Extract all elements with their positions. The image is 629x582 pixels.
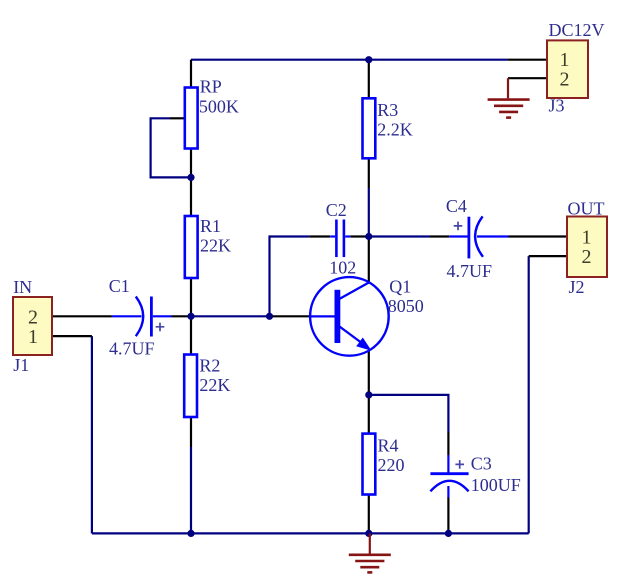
svg-text:R2: R2 bbox=[199, 355, 220, 375]
pin J1 pin1 bbox=[52, 335, 92, 337]
svg-text:22K: 22K bbox=[200, 236, 231, 256]
pin Q1 base bbox=[270, 315, 311, 317]
wire RP wiper loop bbox=[151, 118, 191, 177]
connector J1 bbox=[13, 297, 52, 355]
resistor R1 bbox=[185, 216, 198, 278]
svg-text:C1: C1 bbox=[109, 276, 130, 296]
capacitor C2 bbox=[330, 220, 350, 258]
svg-text:2: 2 bbox=[560, 69, 570, 91]
junction base divider bbox=[187, 313, 194, 320]
pin C2 left bbox=[309, 235, 330, 237]
wire R2 bottom to ground rail bbox=[190, 447, 192, 533]
pin R2 top bbox=[190, 316, 192, 354]
pin C3 top bbox=[447, 432, 449, 455]
wire emitter node to C3 bbox=[369, 395, 449, 432]
pin R3 top bbox=[368, 60, 370, 99]
pin R2 bottom bbox=[190, 417, 192, 447]
svg-text:R4: R4 bbox=[378, 435, 399, 455]
junction rail C3 bbox=[445, 530, 452, 537]
pin C3 bottom bbox=[447, 497, 449, 533]
junction RP wiper R1 bbox=[187, 174, 194, 181]
junction emitter node bbox=[365, 391, 372, 398]
svg-text:J2: J2 bbox=[569, 277, 585, 297]
svg-text:C2: C2 bbox=[326, 200, 347, 220]
junction C2 right collector bbox=[365, 233, 372, 240]
pin C4 right to J2 pin1 bbox=[509, 235, 568, 237]
pin Q1 collector bbox=[368, 237, 370, 283]
wire C2 tap to base bbox=[270, 237, 310, 317]
svg-text:R3: R3 bbox=[377, 100, 398, 120]
capacitor C3 bbox=[430, 455, 468, 498]
resistor R4 bbox=[363, 434, 376, 495]
junction rail R4 ground bbox=[365, 530, 372, 537]
pin R3 bottom bbox=[368, 158, 370, 188]
svg-text:100UF: 100UF bbox=[471, 475, 521, 495]
svg-text:Q1: Q1 bbox=[389, 277, 411, 297]
wire J2 pin2 down bbox=[528, 256, 530, 533]
svg-text:C4: C4 bbox=[446, 196, 467, 216]
pin R1 top bbox=[190, 177, 192, 216]
wire J1 pin1 down bbox=[91, 336, 93, 533]
svg-text:C3: C3 bbox=[471, 454, 492, 474]
svg-text:OUT: OUT bbox=[568, 198, 605, 218]
svg-text:4.7UF: 4.7UF bbox=[447, 261, 493, 281]
svg-text:J1: J1 bbox=[13, 355, 29, 375]
wire base rail bbox=[191, 315, 270, 317]
wire bottom ground rail bbox=[92, 532, 529, 534]
pin RP bottom bbox=[190, 149, 192, 178]
svg-text:4.7UF: 4.7UF bbox=[109, 338, 155, 358]
pin RP wiper bbox=[170, 117, 185, 119]
connector J3 bbox=[547, 40, 588, 98]
svg-text:500K: 500K bbox=[199, 97, 239, 117]
svg-text:J3: J3 bbox=[549, 96, 565, 116]
transistor Q1 bbox=[310, 277, 389, 356]
pin C1 right bbox=[172, 315, 192, 317]
ground at J3 bbox=[488, 78, 530, 117]
pin C4 left bbox=[430, 235, 449, 237]
capacitor C4 bbox=[449, 216, 508, 258]
pin J2 pin2 bbox=[529, 255, 567, 257]
pin Q1 emitter bbox=[368, 351, 370, 395]
wire top power rail bbox=[191, 59, 508, 61]
svg-text:IN: IN bbox=[13, 277, 32, 297]
svg-text:RP: RP bbox=[200, 77, 222, 97]
pin RP top bbox=[190, 60, 192, 88]
svg-text:2: 2 bbox=[582, 246, 592, 268]
svg-text:2.2K: 2.2K bbox=[377, 120, 413, 140]
svg-text:8050: 8050 bbox=[388, 296, 424, 316]
resistor R3 bbox=[363, 98, 376, 158]
connector J2 bbox=[567, 217, 607, 278]
ground at bottom rail bbox=[349, 533, 391, 572]
junction top rail R3 bbox=[365, 56, 372, 63]
pin R1 bottom bbox=[190, 278, 192, 316]
capacitor C1 bbox=[112, 297, 172, 337]
wire collector to R3 bbox=[368, 188, 370, 237]
pin R4 top bbox=[368, 395, 370, 434]
pin J3 pin2 bbox=[508, 77, 547, 79]
junction rail R2 bbox=[187, 530, 194, 537]
svg-text:102: 102 bbox=[329, 258, 356, 278]
pin R4 bottom bbox=[368, 495, 370, 534]
svg-text:R1: R1 bbox=[200, 216, 221, 236]
pin J1 pin2 to C1 bbox=[52, 315, 112, 317]
pin J3 pin1 bbox=[508, 59, 547, 61]
svg-text:220: 220 bbox=[378, 455, 405, 475]
svg-text:1: 1 bbox=[28, 326, 38, 348]
resistor R2 bbox=[184, 355, 197, 418]
wire C2 junction to C4 bbox=[369, 235, 430, 237]
svg-text:DC12V: DC12V bbox=[549, 20, 605, 40]
svg-text:22K: 22K bbox=[199, 375, 230, 395]
junction base C2 tap bbox=[266, 313, 273, 320]
pin C2 right bbox=[350, 235, 369, 237]
potentiometer RP bbox=[185, 88, 198, 149]
